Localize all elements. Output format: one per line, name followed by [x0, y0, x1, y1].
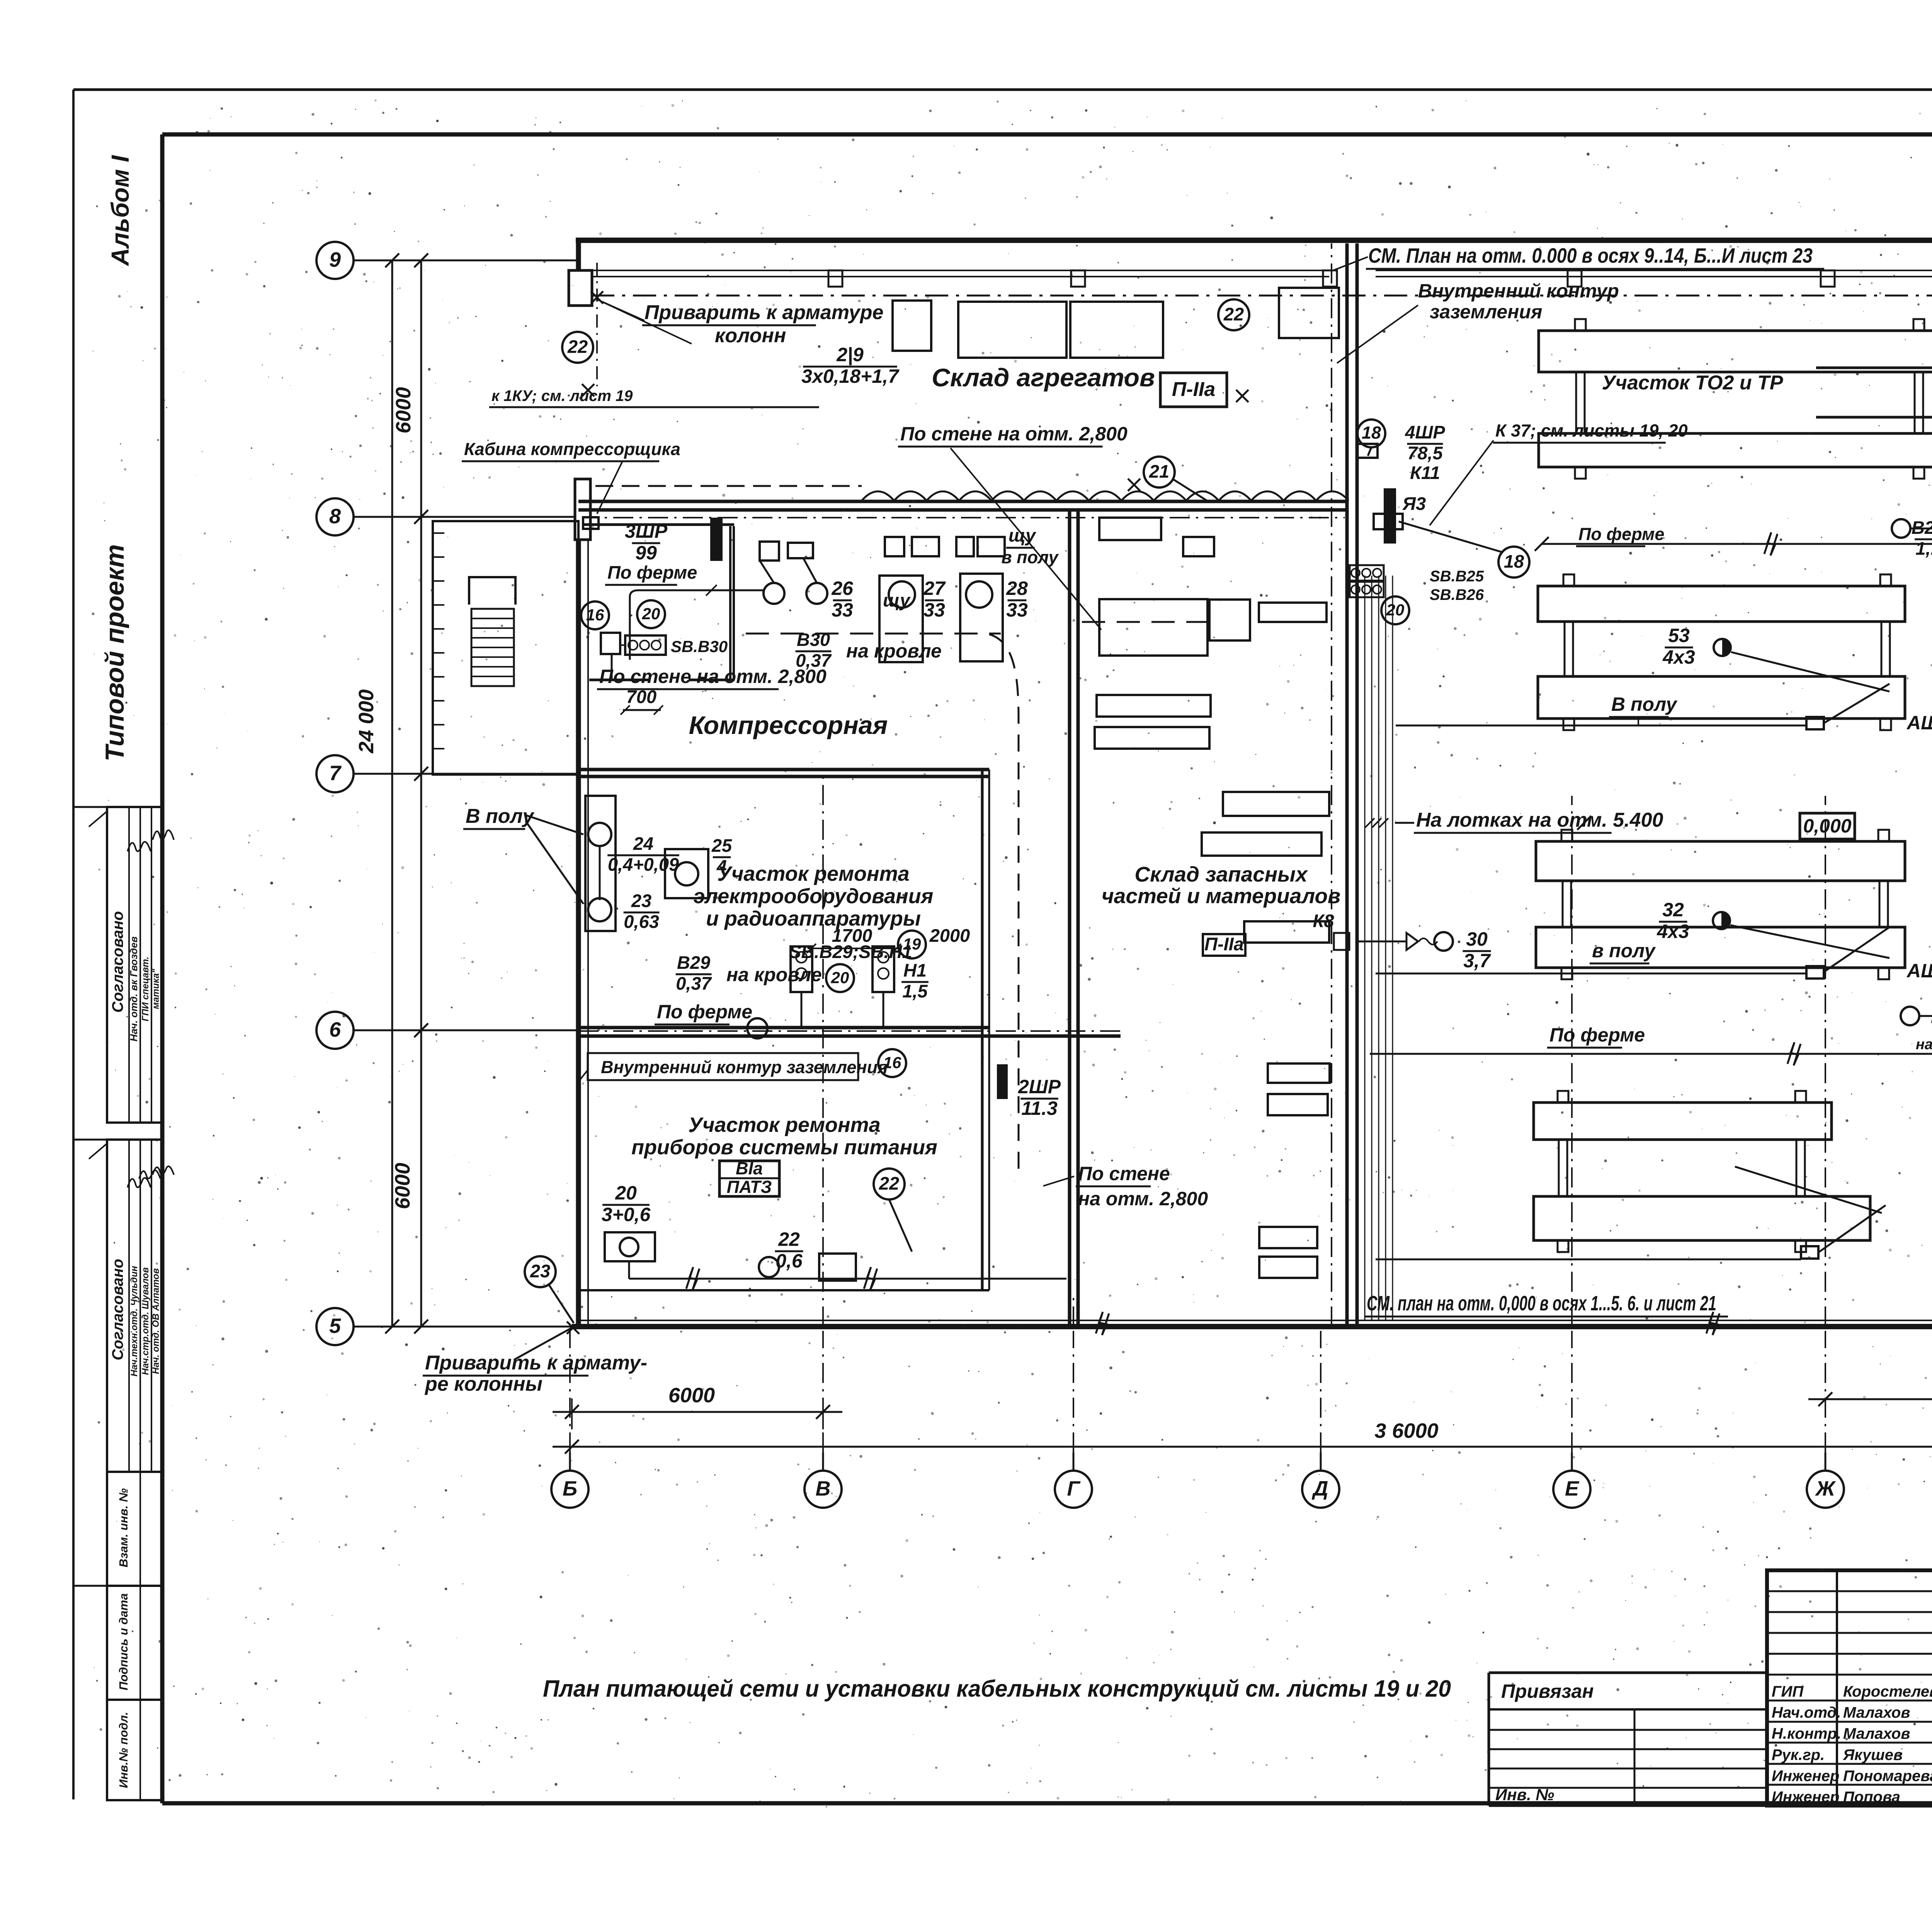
lamp 32: [1713, 912, 1730, 929]
bottom dim line 6000 Zh-I: [1808, 1398, 1932, 1400]
axis leaders into plan: [421, 260, 580, 262]
circle 22 left: [562, 332, 593, 363]
svg-text:20: 20: [1386, 601, 1405, 619]
circle 23 bottom left: [525, 1256, 556, 1287]
hall po ferme line: [1542, 543, 1932, 545]
svg-text:Компрессорная: Компрессорная: [689, 711, 888, 739]
lamp leaders benches: [1731, 652, 1889, 691]
wire in pribory room: [629, 1278, 1066, 1280]
svg-text:33: 33: [832, 599, 853, 621]
svg-text:частей и материалов: частей и материалов: [1102, 884, 1341, 908]
axis 6 dash-dot: [578, 1030, 1121, 1032]
svg-text:1,5: 1,5: [902, 981, 928, 1001]
cable tray bundle: [1364, 576, 1366, 1321]
circle 20 mid: [826, 964, 854, 992]
SB.B30 box: [625, 635, 666, 655]
rounded capsule tank: [1816, 368, 1932, 417]
axis Zh vertical dash-dot inside: [1825, 796, 1826, 1327]
kompressor equipment left: [585, 796, 616, 931]
svg-text:0,4+0,09: 0,4+0,09: [608, 854, 679, 875]
svg-text:По стене на отм. 2,800: По стене на отм. 2,800: [599, 666, 827, 687]
svg-text:23: 23: [530, 1261, 550, 1281]
svg-text:SB.В26: SB.В26: [1430, 586, 1484, 603]
svg-text:На лотках на отм. 5.400: На лотках на отм. 5.400: [1416, 809, 1663, 831]
bottom dim line 6000 B-V: [553, 1411, 842, 1413]
svg-text:Склад агрегатов: Склад агрегатов: [932, 363, 1155, 392]
svg-text:11.3: 11.3: [1021, 1097, 1058, 1119]
svg-text:Инженер: Инженер: [1772, 1789, 1839, 1806]
svg-text:6000: 6000: [668, 1384, 715, 1407]
svg-text:18: 18: [1504, 551, 1524, 571]
svg-text:Согласовано: Согласовано: [109, 911, 126, 1013]
H1 boxes near circle 19: [791, 946, 812, 992]
svg-text:Якушев: Якушев: [1843, 1746, 1903, 1763]
svg-text:В: В: [816, 1477, 831, 1500]
label 0.000 box: [1800, 813, 1855, 839]
equipment box 20: [605, 1232, 655, 1261]
ASch lines row1: [1396, 725, 1806, 727]
svg-text:Д: Д: [1312, 1477, 1328, 1500]
svg-text:заземления: заземления: [1430, 301, 1542, 323]
scalloped flexible line: [862, 491, 1349, 501]
circle 22 mid: [1218, 299, 1249, 330]
svg-text:Альбом I: Альбом I: [106, 155, 134, 267]
SB.B25 SB.B26 symbol boxes: [1350, 565, 1384, 581]
pribory room right wall: [981, 1036, 984, 1290]
v polu leader left room: [526, 815, 583, 834]
4ShR riser symbol: [1384, 488, 1396, 544]
axis B vertical dash-dot inside: [822, 776, 824, 1327]
axis E vertical dash-dot inside: [1571, 796, 1573, 1327]
privyazan table: [1489, 1672, 1767, 1674]
svg-text:ГПИ спецавт.: ГПИ спецавт.: [140, 956, 151, 1021]
x marks: [591, 291, 603, 304]
axis circle 9: [316, 242, 354, 279]
svg-text:Малахов: Малахов: [1843, 1725, 1910, 1742]
po ferme wire loop: [630, 590, 764, 660]
pribory room bottom interior wall: [578, 1289, 989, 1291]
svg-text:20: 20: [615, 1182, 637, 1204]
svg-text:6000: 6000: [392, 387, 415, 433]
svg-text:Я3: Я3: [1402, 493, 1426, 514]
svg-text:приборов системы питания: приборов системы питания: [631, 1136, 937, 1159]
svg-text:К11: К11: [1410, 462, 1440, 483]
svg-text:щу: щу: [1009, 525, 1037, 545]
circle 19: [898, 931, 926, 958]
kabina room walls: [584, 523, 734, 526]
svg-text:П-IIа: П-IIа: [1204, 934, 1244, 954]
svg-text:Нач. отд. вк Гвоздев: Нач. отд. вк Гвоздев: [128, 936, 139, 1041]
svg-text:Участок ремонта: Участок ремонта: [717, 862, 909, 885]
2ShR symbol: [997, 1064, 1008, 1099]
axis circle Е: [1553, 1471, 1590, 1508]
left exterior wall: [576, 240, 581, 306]
3ShR riser symbol: [710, 518, 723, 561]
label P-IIa mid: [1203, 934, 1245, 956]
circle 18 top: [1357, 420, 1385, 447]
dashed curve po stene 2800 (left): [989, 634, 1019, 1178]
axis circle 8: [316, 498, 354, 535]
axis circle Ж: [1807, 1471, 1844, 1508]
wires near 20 circle: [801, 992, 803, 1028]
axis G vertical dash-dot inside: [1073, 1298, 1074, 1327]
B27 circle right: [1901, 1007, 1919, 1025]
svg-text:В полу: В полу: [1611, 693, 1678, 715]
svg-text:24 000: 24 000: [355, 689, 378, 753]
svg-text:4ШР: 4ШР: [1405, 422, 1445, 442]
svg-text:на кровле: на кровле: [1916, 1036, 1932, 1053]
svg-text:на кровле: на кровле: [846, 640, 942, 662]
svg-text:Нач.отд.: Нач.отд.: [1772, 1704, 1841, 1721]
svg-text:на отм. 2,800: на отм. 2,800: [1078, 1188, 1208, 1210]
equipment boxes with circles 27 28: [879, 576, 923, 662]
svg-text:и радиоаппаратуры: и радиоаппаратуры: [706, 907, 921, 930]
svg-text:Типовой проект: Типовой проект: [100, 544, 129, 761]
svg-text:20: 20: [642, 605, 660, 623]
circle 20 top: [637, 600, 665, 628]
svg-text:Рук.гр.: Рук.гр.: [1772, 1746, 1825, 1763]
svg-text:По ферме: По ферме: [607, 562, 697, 583]
axis circle В: [804, 1471, 842, 1508]
svg-text:27: 27: [923, 578, 946, 599]
svg-text:В30: В30: [797, 629, 830, 650]
svg-text:22: 22: [879, 1173, 899, 1193]
svg-text:22: 22: [778, 1228, 800, 1250]
svg-text:4х3: 4х3: [1656, 921, 1689, 942]
storage racks column 1: [1099, 518, 1161, 540]
circle 20 sb: [1381, 596, 1409, 624]
svg-text:ГИП: ГИП: [1772, 1683, 1804, 1700]
svg-text:Участок ремонта: Участок ремонта: [688, 1113, 880, 1137]
svg-text:Инв.№ подл.: Инв.№ подл.: [117, 1712, 130, 1788]
svg-text:SB.В29;SB.Н1: SB.В29;SB.Н1: [789, 941, 912, 962]
svg-text:Ж: Ж: [1815, 1477, 1836, 1500]
svg-text:Согласовано: Согласовано: [109, 1259, 126, 1361]
svg-text:По стене: По стене: [1078, 1163, 1170, 1184]
svg-text:К 37; см. листы 19, 20: К 37; см. листы 19, 20: [1495, 421, 1688, 440]
svg-text:0,000: 0,000: [1803, 815, 1851, 837]
svg-text:24: 24: [633, 833, 653, 854]
svg-text:Попова: Попова: [1843, 1789, 1900, 1806]
svg-text:0,37: 0,37: [676, 973, 712, 994]
box under circle 18: [1357, 444, 1378, 458]
stairs: [469, 577, 515, 605]
circle 18 lower: [1498, 547, 1529, 578]
svg-text:30: 30: [1466, 928, 1488, 950]
svg-text:23: 23: [631, 890, 651, 911]
bottom dim line 36000: [553, 1446, 1932, 1448]
svg-text:Взам. инв. №: Взам. инв. №: [117, 1488, 130, 1568]
B26 circle right: [1892, 519, 1910, 538]
svg-text:По ферме: По ферме: [1549, 1024, 1645, 1046]
schu row small boxes: [760, 542, 779, 561]
svg-text:Участок ТО2 и ТР: Участок ТО2 и ТР: [1602, 372, 1783, 394]
svg-text:20: 20: [831, 968, 849, 987]
svg-text:Нач. отд. ОВ Алпатов: Нач. отд. ОВ Алпатов: [151, 1268, 161, 1374]
ground loop dash-dot below top wall: [591, 295, 1932, 297]
bench row 2: [1536, 841, 1905, 881]
svg-text:6: 6: [329, 1018, 341, 1041]
bench row 1: [1538, 586, 1905, 622]
svg-text:18: 18: [1362, 423, 1381, 443]
svg-text:Инв. №: Инв. №: [1495, 1785, 1554, 1804]
k1KU cable dash-dot: [596, 263, 598, 386]
svg-text:щу: щу: [883, 590, 911, 610]
svg-text:8: 8: [329, 505, 341, 528]
wall top of electro room (axis 7): [578, 768, 989, 771]
svg-text:28: 28: [1006, 578, 1028, 599]
na lotkah leader: [1395, 822, 1414, 824]
axis circle 5: [316, 1308, 354, 1345]
lamp 53: [1714, 639, 1731, 656]
svg-text:33: 33: [923, 599, 945, 621]
title block frame: [1767, 1570, 1932, 1806]
svg-text:3х0,18+1,7: 3х0,18+1,7: [801, 365, 900, 387]
svg-text:2000: 2000: [929, 925, 970, 946]
svg-text:SB.В25: SB.В25: [1430, 568, 1484, 585]
Ya3 box: [1374, 514, 1403, 529]
column block left wall: [575, 479, 590, 540]
svg-text:22: 22: [1223, 304, 1244, 324]
svg-text:Привязан: Привязан: [1501, 1680, 1594, 1702]
podkl lines kompressor: [599, 846, 601, 900]
sidebar cell inv n podl: [107, 1700, 162, 1800]
svg-text:Н1: Н1: [903, 960, 927, 980]
top exterior wall: [576, 238, 1932, 243]
bench row 0 (uchastok TO2): [1539, 331, 1932, 372]
circle 22 bottom: [874, 1169, 905, 1199]
axis 8 interior wall band: [578, 500, 1347, 503]
window openings top band: [893, 301, 931, 351]
sidebar cell podpis i data: [107, 1586, 162, 1700]
axis circle Д: [1302, 1471, 1339, 1508]
svg-text:К8: К8: [1313, 911, 1334, 931]
inner drawing frame: [162, 133, 1932, 137]
svg-text:Нач.техн.отд. Чульдин: Нач.техн.отд. Чульдин: [129, 1266, 139, 1376]
circle 21: [1144, 457, 1175, 488]
svg-text:99: 99: [635, 542, 657, 564]
svg-text:700: 700: [626, 686, 656, 707]
svg-text:Подпись и дата: Подпись и дата: [117, 1593, 130, 1690]
svg-text:Нач.стр.отд. Шувалов: Нач.стр.отд. Шувалов: [140, 1267, 151, 1375]
svg-text:0,63: 0,63: [624, 911, 659, 932]
svg-text:в полу: в полу: [1001, 547, 1059, 567]
svg-text:Приварить к армату-: Приварить к армату-: [425, 1352, 647, 1374]
ASch lines row2: [1376, 973, 1806, 975]
svg-text:25: 25: [711, 835, 732, 856]
svg-text:3ШР: 3ШР: [625, 520, 668, 542]
svg-text:ПАТЗ: ПАТЗ: [727, 1177, 772, 1197]
sidebar cell vzam inv: [107, 1472, 162, 1586]
label vnutr kontur bottom: [588, 1053, 858, 1080]
circle 16 top: [581, 601, 609, 629]
svg-text:1,1: 1,1: [1915, 538, 1932, 559]
lamp circles on po ferme line: [764, 583, 784, 604]
svg-text:2|9: 2|9: [836, 344, 864, 365]
storage racks column 2: [1209, 600, 1250, 640]
svg-text:6000: 6000: [391, 1163, 414, 1209]
svg-text:33: 33: [1006, 599, 1028, 621]
bottom exterior wall: [572, 1324, 1932, 1329]
svg-text:Внутренний контур: Внутренний контур: [1418, 280, 1619, 302]
svg-text:По ферме: По ферме: [1578, 524, 1664, 544]
kompressor machine: [665, 849, 708, 898]
left vertical dim lines: [391, 260, 393, 1327]
svg-text:План питающей сети и у: План питающей сети и установки кабельных…: [543, 1675, 1451, 1702]
kabina kompressorschika dashed wall: [595, 485, 862, 487]
svg-text:Е: Е: [1565, 1477, 1580, 1500]
sidebar stamp table 2 soglasovano: [107, 1140, 162, 1472]
svg-text:22: 22: [567, 336, 588, 357]
svg-text:26: 26: [831, 578, 854, 599]
warehouse right wall with cable trays: [1345, 243, 1349, 1327]
bench row 3: [1534, 1103, 1832, 1140]
ASch lines row3: [1376, 1259, 1801, 1261]
svg-text:матика": матика": [151, 968, 161, 1009]
svg-text:ВIа: ВIа: [736, 1159, 763, 1178]
outer paper border: [72, 90, 75, 1799]
svg-text:Г: Г: [1067, 1477, 1081, 1500]
electro room right wall: [981, 770, 984, 1035]
svg-text:32: 32: [1662, 899, 1684, 921]
svg-text:7: 7: [329, 762, 342, 785]
svg-text:Кабина компрессорщика: Кабина компрессорщика: [464, 439, 680, 459]
svg-text:Малахов: Малахов: [1843, 1704, 1910, 1721]
svg-text:В26: В26: [1912, 517, 1932, 538]
svg-text:к 1КУ; см. лист 19: к 1КУ; см. лист 19: [492, 387, 633, 404]
svg-text:колонн: колонн: [715, 324, 786, 347]
svg-text:Внутренний контур заземления: Внутренний контур заземления: [601, 1057, 888, 1077]
svg-text:АЩ: АЩ: [1906, 960, 1932, 982]
svg-text:АЩ: АЩ: [1906, 712, 1932, 734]
svg-text:3 6000: 3 6000: [1374, 1419, 1438, 1442]
svg-text:на кровле: на кровле: [726, 964, 822, 985]
svg-text:В полу: В полу: [466, 805, 535, 827]
axis circle 6: [316, 1012, 354, 1049]
svg-text:Пономарева: Пономарева: [1843, 1767, 1932, 1784]
K8 box: [1334, 933, 1349, 950]
po ferme row3 cable line: [1370, 1053, 1932, 1055]
svg-text:Инженер: Инженер: [1772, 1767, 1839, 1784]
svg-text:Коростелев: Коростелев: [1843, 1683, 1932, 1700]
svg-text:Склад запасных: Склад запасных: [1134, 862, 1308, 886]
circle 21 wave leader: [1159, 481, 1160, 488]
svg-text:16: 16: [586, 606, 604, 624]
svg-text:Приварить к арматуре: Приварить к арматуре: [645, 301, 883, 324]
central wall axis G: [1068, 510, 1071, 1327]
label VIa PATZ: [719, 1161, 779, 1196]
svg-text:4х3: 4х3: [1662, 646, 1695, 668]
svg-text:78,5: 78,5: [1407, 443, 1443, 463]
circle 16 bottom: [878, 1049, 906, 1077]
annex room left of wall: [433, 521, 578, 775]
svg-text:5: 5: [329, 1315, 341, 1338]
sidebar stamp table 1 soglasovano: [107, 807, 162, 1123]
axis circle Б: [551, 1471, 588, 1508]
svg-text:9: 9: [329, 248, 341, 272]
svg-text:СМ. План на отм. 0.000 в осях: СМ. План на отм. 0.000 в осях 9..14, Б..…: [1368, 244, 1813, 267]
svg-text:Б: Б: [563, 1477, 577, 1500]
box at circle 16: [601, 633, 620, 654]
axis circle Г: [1055, 1471, 1092, 1508]
svg-text:СМ. план на отм. 0,000 в осях: СМ. план на отм. 0,000 в осях 1...5. 6. …: [1367, 1292, 1716, 1315]
svg-text:в полу: в полу: [1592, 940, 1656, 962]
wall between electro and pribory rooms (axis 6): [578, 1026, 989, 1030]
svg-text:21: 21: [1149, 461, 1169, 481]
svg-text:Н.контр.: Н.контр.: [1772, 1725, 1841, 1742]
svg-text:ре колонны: ре колонны: [424, 1373, 543, 1395]
svg-text:По ферме: По ферме: [657, 1001, 752, 1023]
svg-text:По стене на отм. 2,800: По стене на отм. 2,800: [900, 423, 1128, 445]
title block left grid: [1767, 1590, 1932, 1592]
30/3,7 symbols: [1406, 933, 1418, 950]
svg-text:П-IIа: П-IIа: [1172, 378, 1216, 401]
corner column axis9: [569, 270, 592, 306]
svg-text:3,7: 3,7: [1463, 950, 1491, 972]
dashed line under 26-28 labels: [746, 633, 1001, 635]
svg-text:3+0,6: 3+0,6: [602, 1204, 651, 1225]
svg-text:В29: В29: [677, 952, 710, 973]
svg-text:электрооборудования: электрооборудования: [694, 885, 934, 908]
700 dim: [623, 709, 661, 711]
label P-IIa top: [1160, 373, 1227, 407]
top wall column stubs: [828, 270, 842, 287]
axis circle 7: [316, 755, 354, 792]
axis 8 dash-dot: [578, 517, 1345, 518]
axis D vertical dash-dot full: [1331, 243, 1332, 1327]
